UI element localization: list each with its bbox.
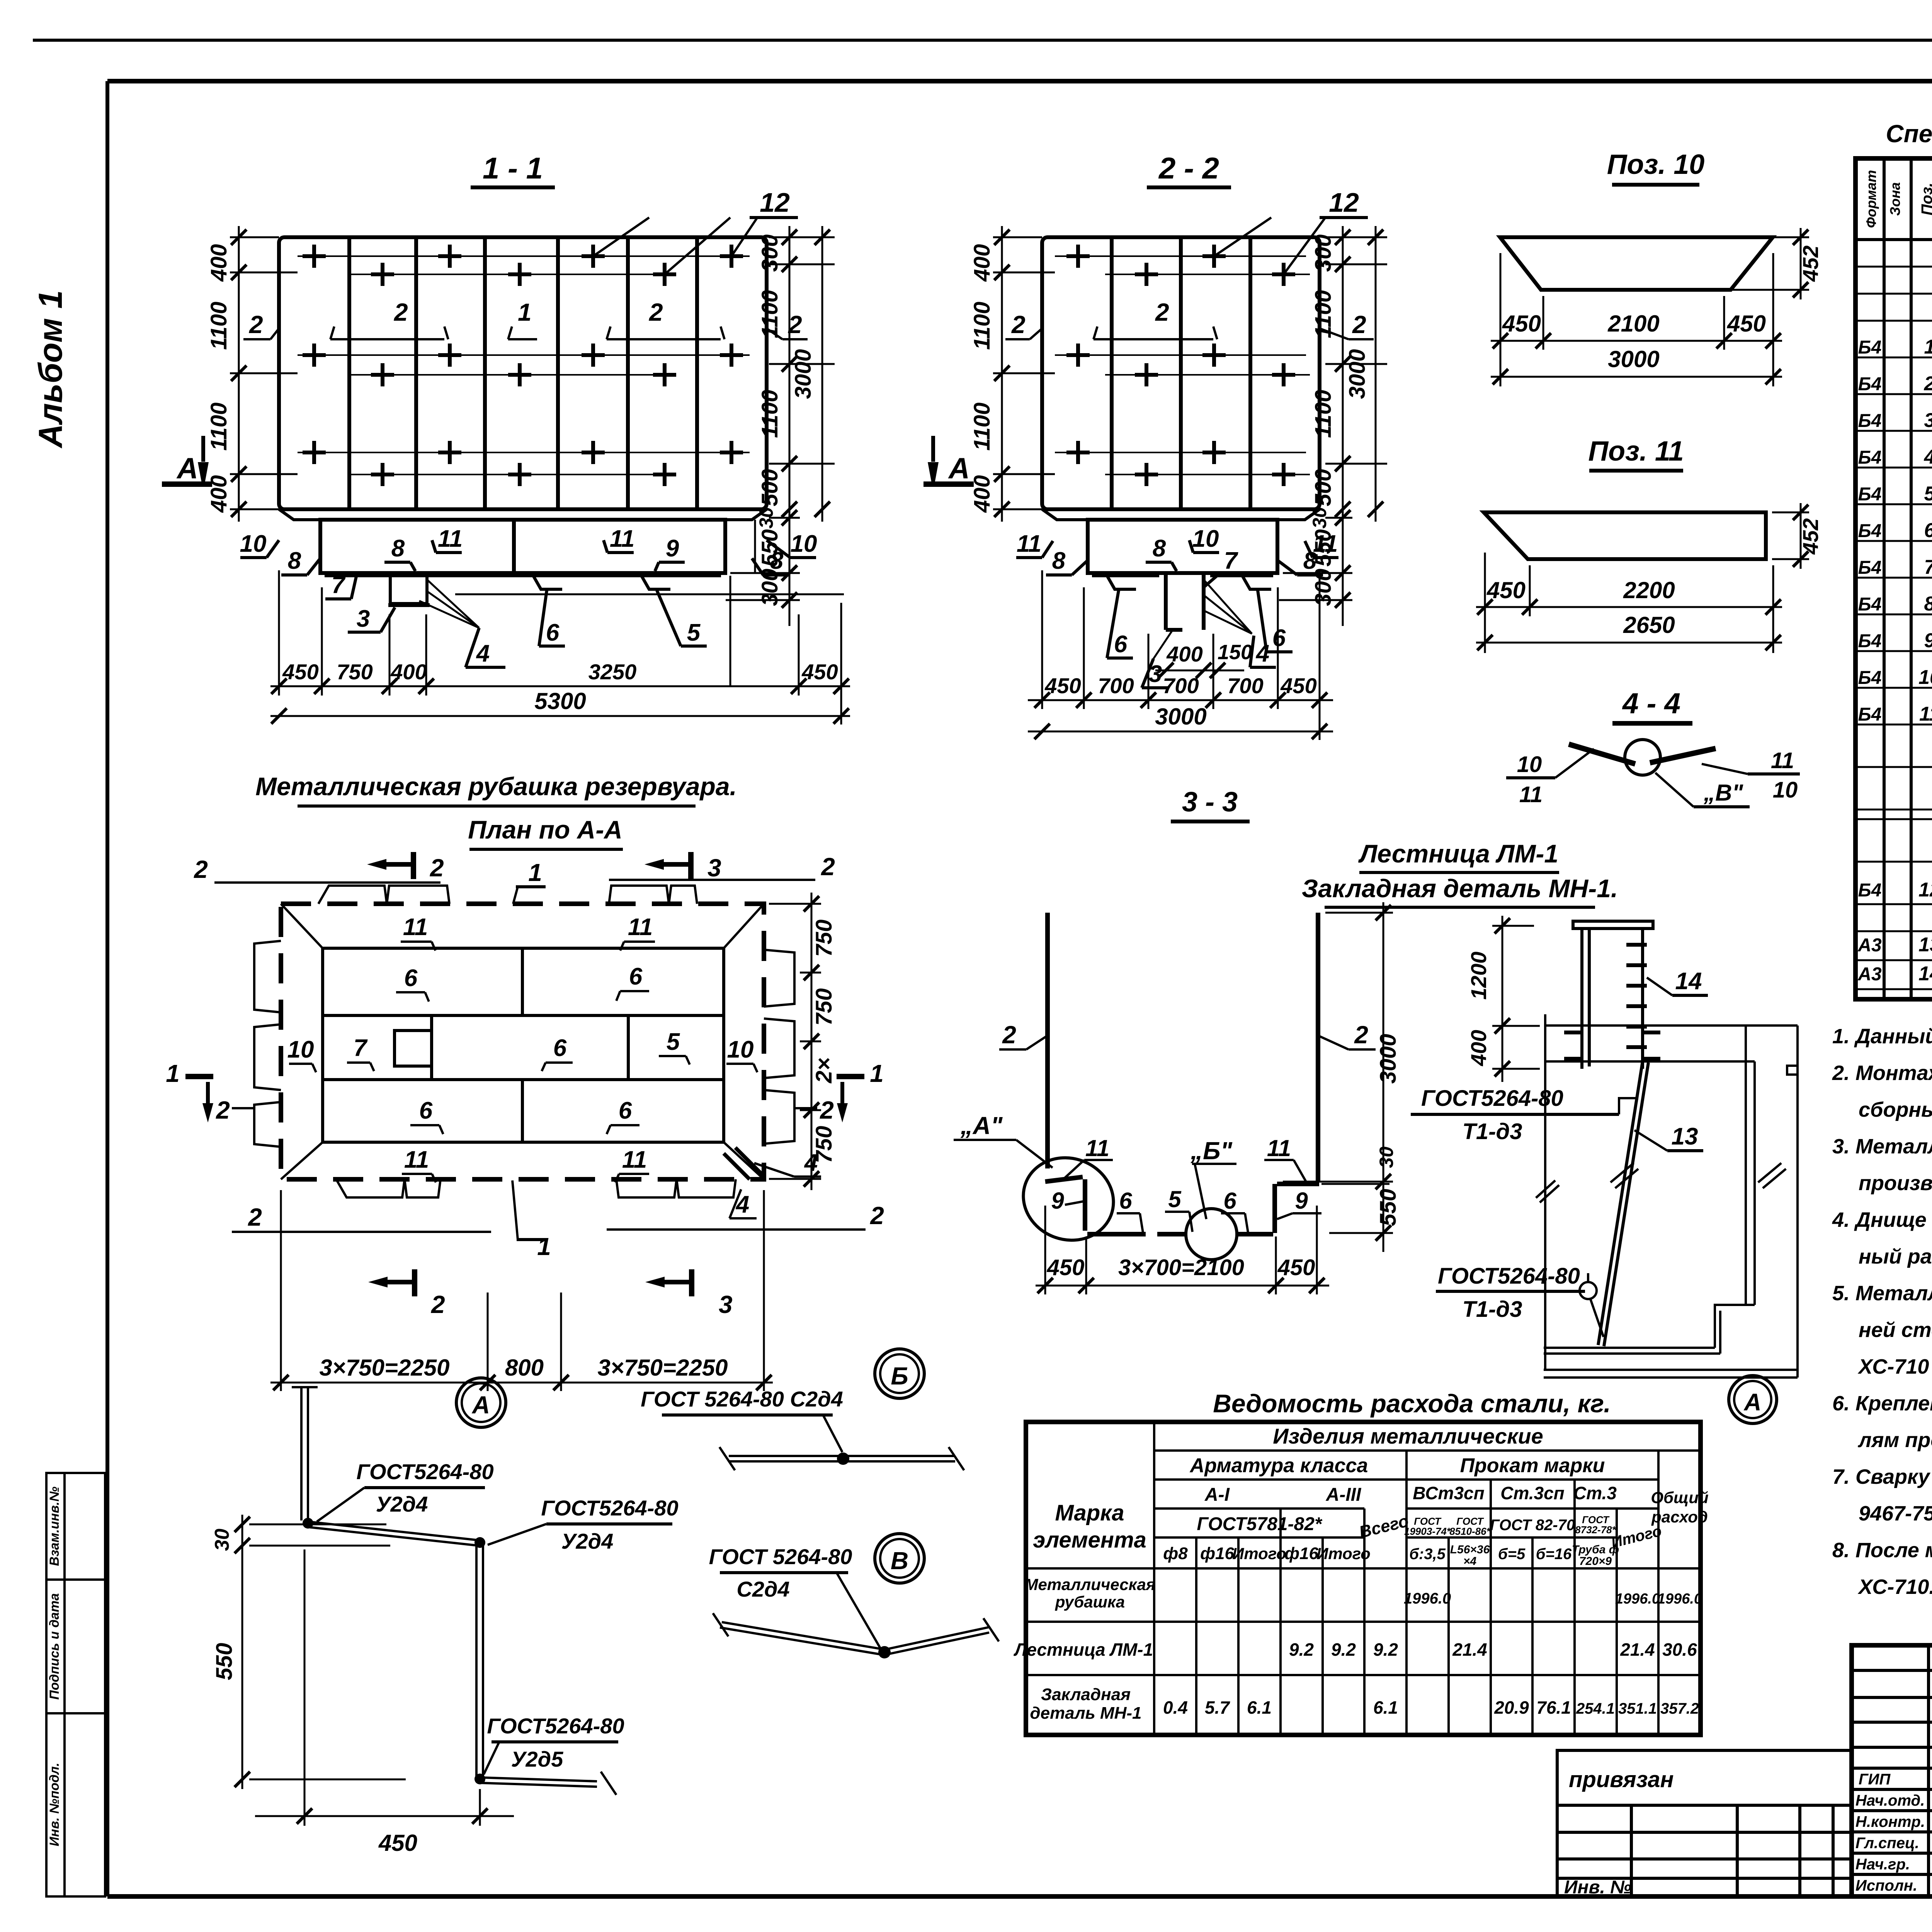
svg-text:Б: Б — [891, 1362, 908, 1390]
svg-text:1: 1 — [528, 859, 542, 886]
svg-text:1100: 1100 — [757, 290, 782, 338]
base flares 2-2 — [1042, 509, 1088, 520]
svg-text:10: 10 — [727, 1036, 754, 1063]
svg-text:7: 7 — [332, 572, 346, 599]
detail A bottom sheet — [479, 1772, 616, 1795]
svg-text:У2д4: У2д4 — [376, 1492, 428, 1516]
svg-text:9: 9 — [666, 535, 679, 562]
svg-text:1: 1 — [870, 1060, 884, 1087]
svg-text:2: 2 — [430, 854, 444, 882]
svg-text:Б4: Б4 — [1858, 880, 1882, 901]
svg-text:А: А — [1743, 1389, 1762, 1416]
svg-text:76.1: 76.1 — [1536, 1697, 1571, 1718]
plan cut flag 3 bottom — [689, 1269, 694, 1296]
svg-text:5: 5 — [1924, 483, 1932, 505]
svg-text:2: 2 — [870, 1202, 884, 1230]
svg-text:1996.0: 1996.0 — [1404, 1590, 1451, 1607]
svg-text:3000: 3000 — [1608, 346, 1659, 372]
svg-text:400: 400 — [206, 244, 231, 282]
section 3-3 left corner sheet — [1045, 1177, 1083, 1182]
steel table horizontals — [1026, 1451, 1701, 1675]
plan outer dashed contour — [281, 904, 764, 1179]
detail V kinked joint — [713, 1613, 999, 1655]
svg-text:450: 450 — [1277, 1255, 1315, 1280]
svg-text:4: 4 — [476, 640, 490, 667]
svg-text:9: 9 — [1051, 1188, 1064, 1214]
ladder stringer diagonal — [1598, 1061, 1648, 1346]
detail 4-4 joint circle — [1625, 740, 1660, 775]
flares pos 6 (2-2) — [1107, 576, 1136, 589]
detail A circle mark — [456, 1378, 506, 1427]
svg-text:Итого: Итого — [1316, 1544, 1371, 1563]
svg-text:3×700=2100: 3×700=2100 — [1118, 1255, 1244, 1280]
svg-text:1100: 1100 — [1311, 290, 1336, 338]
leaders pos 3/4 (2-2) — [1153, 580, 1252, 659]
svg-text:Т1-д3: Т1-д3 — [1462, 1119, 1522, 1144]
svg-text:2: 2 — [1354, 1021, 1368, 1049]
svg-text:700: 700 — [1163, 673, 1199, 698]
svg-text:6.1: 6.1 — [1373, 1697, 1398, 1718]
svg-text:Альбом 1: Альбом 1 — [32, 290, 69, 449]
svg-text:357.2: 357.2 — [1660, 1700, 1699, 1717]
svg-text:550: 550 — [1376, 1189, 1401, 1226]
section 3-3 right panel — [1316, 913, 1320, 1181]
pos labels around base — [240, 526, 817, 667]
svg-text:У2д5: У2д5 — [511, 1747, 564, 1771]
svg-text:б=16: б=16 — [1536, 1546, 1572, 1563]
svg-text:L56×36: L56×36 — [1450, 1543, 1490, 1556]
svg-text:11: 11 — [404, 1146, 429, 1173]
detail callout A blob — [1012, 1145, 1125, 1253]
svg-text:Гл.спец.: Гл.спец. — [1855, 1835, 1919, 1852]
svg-text:400: 400 — [969, 244, 995, 282]
section 3-3 left panel — [1045, 913, 1050, 1168]
svg-text:ХС-710 по 1 слою грунтовки ХС: ХС-710 по 1 слою грунтовки ХС-010 (ГОСТ … — [1857, 1355, 1932, 1378]
steel table verticals — [1154, 1422, 1658, 1735]
svg-text:10: 10 — [1773, 777, 1798, 803]
right dimension chain 300/1100/1100/500/30/550/300 — [726, 226, 835, 626]
right wall notch — [1787, 1066, 1798, 1075]
svg-text:ней стороны очистить и после к: ней стороны очистить и после крепления о… — [1859, 1318, 1932, 1342]
svg-text:расход: расход — [1651, 1508, 1708, 1526]
plan right dims 750 chain — [769, 893, 821, 1190]
svg-text:300: 300 — [1311, 235, 1336, 272]
base bottom lines 2-2 — [1092, 574, 1273, 577]
svg-text:10: 10 — [1517, 752, 1542, 777]
svg-text:6.1: 6.1 — [1247, 1697, 1272, 1718]
detail B circle mark — [875, 1349, 924, 1398]
svg-text:Закладная: Закладная — [1041, 1685, 1131, 1704]
svg-text:21.4: 21.4 — [1452, 1639, 1487, 1660]
svg-text:3000: 3000 — [1345, 349, 1370, 399]
anchor plate tabs MN-1 — [1564, 1032, 1660, 1059]
svg-text:Б4: Б4 — [1858, 447, 1882, 468]
svg-text:6: 6 — [1272, 625, 1286, 651]
svg-text:2: 2 — [649, 298, 663, 326]
svg-text:2200: 2200 — [1623, 577, 1675, 603]
svg-text:рубашка: рубашка — [1055, 1593, 1125, 1611]
svg-text:Б4: Б4 — [1858, 668, 1882, 688]
base flare left (pos 10) — [279, 509, 320, 520]
svg-text:4 - 4: 4 - 4 — [1622, 687, 1680, 719]
svg-text:6: 6 — [1114, 631, 1128, 658]
svg-text:2 - 2: 2 - 2 — [1158, 151, 1219, 185]
svg-text:Взам.инв.№: Взам.инв.№ — [47, 1486, 62, 1566]
svg-text:1100: 1100 — [206, 403, 231, 451]
section 2-2 seam lines — [1055, 256, 1310, 474]
svg-text:А-I: А-I — [1204, 1485, 1230, 1505]
svg-text:500: 500 — [1311, 469, 1336, 507]
specification header — [1855, 238, 1932, 241]
bottom dimension chain 450/700/700/700/450 (2-2) — [1028, 570, 1333, 740]
section 1-1 panel rectangle — [279, 237, 767, 509]
svg-text:9.2: 9.2 — [1289, 1639, 1314, 1660]
detail location circle A — [1729, 1376, 1777, 1423]
svg-text:А-III: А-III — [1326, 1485, 1362, 1505]
pos labels around base 2-2 — [1017, 526, 1338, 687]
svg-text:11: 11 — [1919, 703, 1932, 725]
svg-text:450: 450 — [1502, 311, 1541, 337]
privyazan block — [1557, 1750, 1852, 1896]
svg-text:14: 14 — [1918, 963, 1932, 985]
svg-text:700: 700 — [1227, 673, 1263, 698]
svg-text:300: 300 — [757, 569, 782, 606]
svg-text:А3: А3 — [1857, 964, 1882, 985]
svg-text:1: 1 — [518, 298, 532, 326]
svg-text:1100: 1100 — [969, 302, 995, 350]
pos.11 dims 450/2200 — [1476, 553, 1782, 653]
svg-text:ХС-710.: ХС-710. — [1857, 1575, 1932, 1599]
svg-text:У2д4: У2д4 — [561, 1529, 614, 1553]
section 3-3 right dim chain 3000/30/550 — [1283, 902, 1393, 1252]
svg-text:Ведомость расхода стали, кг.: Ведомость расхода стали, кг. — [1213, 1389, 1611, 1418]
right overall dimension 3000 — [821, 226, 823, 522]
section 1-1 seam lines — [298, 256, 750, 474]
svg-text:5: 5 — [667, 1029, 680, 1055]
break marks — [1536, 1163, 1786, 1202]
flare pos 6 — [533, 576, 562, 589]
svg-text:11: 11 — [1267, 1135, 1291, 1161]
svg-text:450: 450 — [1280, 673, 1316, 698]
svg-text:10: 10 — [1918, 666, 1932, 689]
svg-text:11: 11 — [403, 914, 428, 940]
section 2-2 panel joints — [1112, 237, 1250, 509]
svg-text:8732-78*: 8732-78* — [1575, 1524, 1616, 1536]
svg-text:производству сварочных работ.: производству сварочных работ. — [1859, 1172, 1932, 1195]
svg-text:2: 2 — [249, 311, 263, 338]
svg-text:30.6: 30.6 — [1662, 1639, 1697, 1660]
frame left line — [105, 81, 109, 1896]
svg-text:2×: 2× — [811, 1058, 837, 1083]
svg-text:Б4: Б4 — [1858, 374, 1882, 395]
svg-text:5. Металлическую рубашку со ст: 5. Металлическую рубашку со стороны бето… — [1832, 1282, 1932, 1305]
svg-text:2650: 2650 — [1623, 612, 1675, 638]
svg-text:11: 11 — [1017, 531, 1041, 557]
ladder rungs — [1626, 945, 1647, 1047]
svg-text:б:3,5: б:3,5 — [1409, 1546, 1446, 1563]
svg-text:2: 2 — [1352, 311, 1366, 338]
right dimension chain 2-2 — [1279, 226, 1387, 626]
svg-text:452: 452 — [1798, 518, 1823, 554]
pos.10 dims 450/2100/450 — [1491, 253, 1782, 386]
svg-text:Б4: Б4 — [1858, 337, 1882, 358]
detail V circle mark — [875, 1534, 924, 1583]
svg-text:450: 450 — [801, 660, 838, 684]
section 2-2 panel rectangle — [1042, 237, 1320, 509]
frame bottom line — [107, 1894, 1932, 1899]
svg-text:20.9: 20.9 — [1494, 1697, 1529, 1718]
svg-text:2: 2 — [394, 298, 408, 326]
svg-text:6. Крепление вертикальных элем: 6. Крепление вертикальных элементов (поз… — [1832, 1392, 1932, 1415]
svg-text:С2д4: С2д4 — [736, 1577, 789, 1601]
anchor box (pos 3) — [390, 576, 427, 604]
svg-text:2: 2 — [1011, 311, 1026, 338]
svg-text:750: 750 — [811, 988, 837, 1026]
svg-text:450: 450 — [282, 660, 318, 684]
svg-text:7. Сварку производить по ГОСТ5: 7. Сварку производить по ГОСТ5264-80 эле… — [1832, 1465, 1932, 1488]
svg-text:8: 8 — [288, 548, 301, 574]
svg-text:11: 11 — [1085, 1135, 1109, 1161]
svg-text:элемента: элемента — [1033, 1527, 1146, 1553]
wall top lines — [1545, 1026, 1798, 1061]
svg-text:5300: 5300 — [534, 688, 586, 714]
svg-text:Металлическая: Металлическая — [1024, 1575, 1155, 1594]
svg-text:Б4: Б4 — [1858, 631, 1882, 651]
plan cut flag 2 top — [411, 852, 416, 879]
svg-text:деталь МН-1: деталь МН-1 — [1030, 1704, 1141, 1723]
svg-text:12: 12 — [760, 187, 790, 218]
svg-text:10: 10 — [240, 531, 267, 557]
title block left grid — [1852, 1645, 1932, 1896]
svg-text:2: 2 — [1924, 372, 1932, 395]
svg-text:8: 8 — [1153, 535, 1166, 562]
bottom overall dimension 3000 (2-2) — [1028, 731, 1333, 733]
svg-text:1100: 1100 — [1311, 390, 1336, 438]
svg-text:1100: 1100 — [206, 302, 231, 350]
svg-text:ВСт3сп: ВСт3сп — [1413, 1483, 1484, 1503]
svg-text:450: 450 — [1047, 1255, 1085, 1280]
frame top line (band bottom) — [107, 79, 1932, 83]
svg-text:4: 4 — [1255, 640, 1269, 667]
left attribute strip — [46, 1473, 105, 1896]
svg-text:351.1: 351.1 — [1618, 1700, 1657, 1717]
svg-text:9467-75.: 9467-75. — [1859, 1502, 1932, 1525]
svg-text:б=5: б=5 — [1498, 1546, 1526, 1563]
section 3-3 bottom dims 450/2100/450 — [1036, 1206, 1329, 1294]
svg-text:1: 1 — [1924, 336, 1932, 358]
plan right joint tabs — [764, 950, 794, 1144]
specification verticals — [1884, 158, 1932, 999]
steel table outer border — [1026, 1422, 1701, 1735]
svg-text:11: 11 — [622, 1146, 647, 1173]
svg-text:500: 500 — [757, 469, 782, 507]
svg-text:7: 7 — [1924, 556, 1932, 578]
detail A weld points — [303, 1518, 313, 1529]
svg-text:Общий: Общий — [1651, 1488, 1708, 1507]
svg-text:3250: 3250 — [588, 660, 637, 684]
detail 4-4 sheet bars — [1569, 744, 1635, 764]
svg-text:4: 4 — [1924, 446, 1932, 468]
svg-text:3: 3 — [1924, 409, 1932, 432]
detail A top vertical element — [292, 1387, 318, 1520]
svg-text:3 - 3: 3 - 3 — [1182, 787, 1238, 818]
svg-text:2: 2 — [1002, 1021, 1016, 1049]
panel mark labels 2 2 1 2 2 — [249, 298, 802, 338]
svg-text:План по А-А: План по А-А — [468, 815, 622, 844]
svg-text:ф16: ф16 — [1200, 1544, 1234, 1563]
svg-text:2: 2 — [216, 1096, 230, 1124]
svg-text:Т1-д3: Т1-д3 — [1462, 1297, 1522, 1322]
svg-text:14: 14 — [1675, 968, 1702, 995]
svg-text:Исполн.: Исполн. — [1855, 1877, 1917, 1894]
svg-text:300: 300 — [757, 235, 782, 272]
pos.11 plate outline — [1484, 512, 1766, 559]
svg-text:11: 11 — [438, 526, 463, 552]
panel mark labels 2-2 — [1011, 298, 1366, 338]
title block outer — [1852, 1645, 1932, 1896]
svg-text:сборных стеновых панелей и зад: сборных стеновых панелей и заделки швов … — [1859, 1098, 1932, 1121]
svg-text:13: 13 — [1672, 1123, 1698, 1150]
svg-text:6: 6 — [546, 619, 560, 646]
svg-text:9.2: 9.2 — [1373, 1639, 1398, 1660]
svg-text:Б4: Б4 — [1858, 484, 1882, 505]
svg-text:10: 10 — [1192, 526, 1219, 552]
plan left joint tabs — [254, 941, 281, 1147]
paper top trim line — [33, 39, 1932, 42]
base band (pos 8/9 sheets) — [320, 520, 725, 573]
svg-text:30: 30 — [1309, 507, 1330, 529]
section 2-2 dowel crosses — [1066, 245, 1295, 486]
svg-text:1996.0: 1996.0 — [1615, 1591, 1660, 1607]
plan cut flag 2 bottom — [412, 1269, 417, 1296]
svg-text:10: 10 — [791, 531, 817, 557]
svg-text:ГИП: ГИП — [1859, 1771, 1891, 1788]
svg-text:ГОСТ5264-80: ГОСТ5264-80 — [1438, 1264, 1580, 1289]
svg-text:1: 1 — [166, 1060, 180, 1087]
plan cut flag 3 top — [688, 852, 694, 879]
tank floor — [1544, 1305, 1798, 1378]
svg-text:19903-74*: 19903-74* — [1404, 1526, 1451, 1537]
flare pos 5 — [641, 576, 670, 589]
left dimension chain 400/1100/1100/400 — [230, 226, 298, 522]
svg-text:3000: 3000 — [791, 349, 816, 399]
svg-text:400: 400 — [1466, 1030, 1491, 1066]
svg-text:Ст.3: Ст.3 — [1573, 1483, 1617, 1503]
svg-text:Формат: Формат — [1863, 170, 1879, 228]
plan sheet labels — [287, 914, 818, 1218]
svg-text:5: 5 — [687, 619, 701, 646]
svg-text:7: 7 — [354, 1035, 368, 1061]
svg-text:2: 2 — [820, 1096, 834, 1124]
svg-text:1996.0: 1996.0 — [1657, 1591, 1702, 1607]
base flare right (pos 10) — [725, 509, 767, 520]
svg-text:Ст.3сп: Ст.3сп — [1500, 1483, 1565, 1503]
bottom dimension chain 450/750/400/3250/450 — [270, 520, 850, 724]
svg-text:Изделия металлические: Изделия металлические — [1273, 1424, 1543, 1448]
plan corner diagonals — [281, 904, 764, 1179]
svg-text:8510-86*: 8510-86* — [1449, 1526, 1491, 1537]
svg-text:„А": „А" — [960, 1112, 1003, 1139]
central anchor channel 2-2 — [1166, 573, 1204, 630]
svg-text:8. После монтажа лестницы ЛМ-1: 8. После монтажа лестницы ЛМ-1 окрасить … — [1832, 1537, 1932, 1562]
svg-text:Инв. №: Инв. № — [1564, 1877, 1631, 1898]
svg-text:30: 30 — [755, 507, 777, 529]
svg-text:А: А — [948, 452, 970, 485]
svg-text:„Б": „Б" — [1190, 1137, 1232, 1165]
pos.11 dim 2650 — [1476, 642, 1782, 644]
svg-text:привязан: привязан — [1569, 1767, 1674, 1792]
svg-text:Поз.: Поз. — [1918, 183, 1932, 216]
detail A vertical sheet — [476, 1542, 483, 1777]
svg-text:6: 6 — [553, 1035, 567, 1061]
section 3-3 right corner sheet — [1272, 1184, 1277, 1233]
svg-text:550: 550 — [212, 1643, 237, 1680]
section 1-1 dowel crosses — [303, 245, 743, 486]
svg-text:12: 12 — [1329, 187, 1359, 218]
specification row lines — [1855, 267, 1932, 989]
svg-text:5.7: 5.7 — [1205, 1697, 1230, 1718]
svg-text:Марка: Марка — [1055, 1500, 1124, 1526]
svg-text:11: 11 — [628, 914, 653, 940]
svg-text:450: 450 — [378, 1830, 417, 1856]
svg-text:8: 8 — [1052, 548, 1066, 574]
svg-text:2: 2 — [821, 853, 835, 881]
svg-text:700: 700 — [1098, 673, 1134, 698]
svg-text:ГОСТ 5264-80 С2д4: ГОСТ 5264-80 С2д4 — [641, 1387, 843, 1411]
svg-text:400: 400 — [206, 475, 231, 513]
svg-text:10: 10 — [287, 1036, 314, 1063]
svg-text:1100: 1100 — [969, 403, 995, 451]
plan hatch opening — [395, 1031, 432, 1066]
svg-text:А: А — [471, 1391, 490, 1419]
svg-text:800: 800 — [505, 1355, 544, 1381]
plan bottom-right corner hatch (pos 4) — [724, 1148, 764, 1179]
svg-text:3. Металлические листы рубашки: 3. Металлические листы рубашки должны бы… — [1832, 1135, 1932, 1158]
notes text block — [1832, 1025, 1932, 1599]
svg-text:5: 5 — [1168, 1186, 1182, 1212]
detail A dims 30/550/450 — [242, 1515, 406, 1789]
svg-text:ГОСТ5264-80: ГОСТ5264-80 — [356, 1459, 493, 1484]
svg-text:30: 30 — [1376, 1146, 1397, 1168]
svg-text:750: 750 — [811, 920, 837, 957]
bottom overall dimension 5300 — [270, 715, 850, 717]
svg-text:3×750=2250: 3×750=2250 — [319, 1355, 449, 1381]
svg-text:Н.контр.: Н.контр. — [1855, 1813, 1925, 1830]
svg-text:450: 450 — [1727, 311, 1766, 337]
plan top joint tabs — [318, 886, 697, 904]
svg-text:9.2: 9.2 — [1331, 1639, 1356, 1660]
tank right wall double line — [1746, 1026, 1798, 1378]
base bottom sheet line — [325, 574, 721, 577]
node B circle — [1186, 1209, 1237, 1260]
svg-text:лям производить пристрелкой дю: лям производить пристрелкой дюбелями ДГ4… — [1857, 1429, 1932, 1452]
svg-text:2: 2 — [194, 855, 208, 883]
svg-text:550: 550 — [757, 529, 782, 567]
svg-text:Поз. 10: Поз. 10 — [1607, 149, 1705, 180]
svg-text:Закладная деталь МН-1.: Закладная деталь МН-1. — [1302, 874, 1618, 903]
svg-text:1 - 1: 1 - 1 — [483, 151, 543, 185]
svg-text:400: 400 — [1166, 642, 1202, 666]
svg-text:Б4: Б4 — [1858, 704, 1882, 725]
svg-text:1200: 1200 — [1466, 952, 1491, 1000]
signature rows — [1855, 1771, 1925, 1894]
leader line for pos 4 — [419, 580, 479, 628]
svg-text:750: 750 — [811, 1126, 837, 1163]
svg-text:300: 300 — [1311, 569, 1336, 606]
bottom mini dims 400/150 (2-2) — [1155, 670, 1244, 672]
svg-text:ГОСТ 5264-80: ГОСТ 5264-80 — [709, 1544, 852, 1569]
svg-text:3000: 3000 — [1376, 1034, 1401, 1083]
